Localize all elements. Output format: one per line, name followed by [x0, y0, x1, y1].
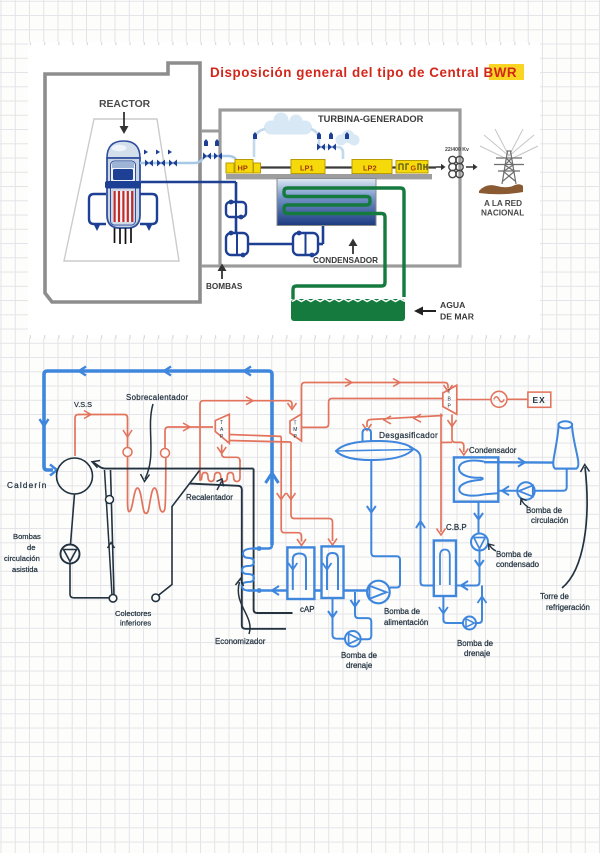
- arrow under REACTOR: [120, 112, 129, 134]
- condenser internal coil: [459, 460, 498, 495]
- wire: extraction to CAP right heater: [287, 442, 338, 545]
- cloud pipes: [254, 129, 343, 159]
- grid ticks showing at picture edges: [30, 44, 540, 337]
- label bombas de circulacion asistida: [4, 532, 41, 574]
- svg-text:condensado: condensado: [496, 560, 540, 569]
- svg-text:NACIONAL: NACIONAL: [481, 209, 524, 218]
- pump deck collar: [105, 181, 141, 189]
- inner vessel liner: [111, 161, 136, 225]
- valve circle on superheater left lead: [123, 448, 132, 457]
- furnace hopper right slope: [159, 471, 200, 596]
- alternator shaft line: [457, 399, 491, 401]
- turbine TMP: [290, 414, 302, 441]
- containment trapezoid: [64, 119, 179, 261]
- sea water serpentine: [284, 188, 404, 299]
- svg-text:A: A: [220, 427, 224, 433]
- wire circulation pump to condenser: [498, 486, 517, 495]
- circulation pump (bomba de circulacion): [517, 482, 534, 499]
- CBP heater box: [434, 541, 456, 597]
- CAP right heater box: [322, 546, 344, 598]
- wire: TBP exhaust to condenser: [448, 415, 469, 456]
- generator blocks: [396, 161, 428, 174]
- label recalentador: [186, 493, 233, 502]
- svg-text:Torre de: Torre de: [540, 592, 570, 601]
- platform: [226, 174, 432, 179]
- sea water basin: [291, 299, 405, 321]
- svg-text:HP: HP: [238, 164, 248, 173]
- label 22/400 Kv: [445, 147, 469, 153]
- cloud large: [264, 113, 312, 135]
- feed line economizer to CAP heaters: [248, 586, 288, 595]
- svg-text:cAP: cAP: [300, 605, 314, 614]
- svg-text:Calderín: Calderín: [7, 481, 48, 490]
- label colectores inferiores: [115, 609, 151, 628]
- svg-text:alimentación: alimentación: [384, 618, 428, 627]
- annotation arrow to superheater: [141, 404, 154, 482]
- recirculation loop left: [89, 194, 106, 231]
- V.S.S steam line (red): [75, 411, 132, 457]
- svg-text:Bomba de: Bomba de: [341, 651, 378, 660]
- svg-text:Recalentador: Recalentador: [186, 493, 233, 502]
- CAP right drain to drain pump: [328, 598, 345, 639]
- arrow out of transformer: [466, 164, 478, 170]
- wire tower to circulation pump: [535, 469, 567, 491]
- control rods: [115, 228, 132, 244]
- wire CAP right box to feed pump: [344, 589, 368, 592]
- wire: feedwater riser to drum (blue main): [40, 367, 279, 546]
- wire: extraction to CAP left heater: [277, 436, 306, 545]
- furnace outer right wall / duct: [254, 469, 293, 613]
- label CONDENSADOR: [313, 256, 378, 265]
- label torre de refrigeracion: [540, 592, 590, 612]
- circulation pump (black): [61, 545, 80, 564]
- shaft: [237, 166, 436, 168]
- label bomba de condensado: [496, 550, 540, 569]
- svg-text:Condensador: Condensador: [469, 446, 517, 455]
- CAP left heater box: [287, 547, 314, 599]
- svg-text:Desgasificador: Desgasificador: [379, 430, 438, 440]
- svg-text:circulación: circulación: [531, 516, 568, 525]
- svg-text:V.S.S: V.S.S: [74, 400, 92, 409]
- black furnace: top header: [92, 461, 254, 469]
- svg-text:Bomba de: Bomba de: [496, 550, 533, 559]
- pylon tower: [494, 151, 524, 184]
- label TURBINA-GENERADOR: [318, 114, 424, 124]
- svg-text:TURBINA-GENERADOR: TURBINA-GENERADOR: [318, 114, 424, 124]
- label desgasificador: [379, 430, 438, 440]
- label bomba de drenaje right: [457, 639, 494, 658]
- arrow condensador: [349, 239, 358, 255]
- svg-text:Sobrecalentador: Sobrecalentador: [126, 393, 188, 402]
- svg-text:drenaje: drenaje: [346, 661, 373, 670]
- feed pump (bomba de alimentacion): [367, 581, 390, 604]
- annotation arrow condensado: [489, 544, 497, 551]
- reactor vessel dome: [107, 141, 140, 158]
- wire: TAP exhaust to reheater: [217, 445, 240, 463]
- label sobrecalentador: [126, 393, 188, 402]
- svg-text:LP1: LP1: [300, 164, 314, 173]
- svg-text:CONDENSADOR: CONDENSADOR: [313, 256, 378, 265]
- label AGUA DE MAR: [440, 300, 475, 322]
- pump P3: [293, 231, 318, 258]
- turbine TBP: [443, 385, 457, 414]
- drain pump right discharge: [476, 586, 487, 624]
- condensate pump (bomba de condensado): [471, 534, 488, 551]
- wire condenser to cooling tower: [484, 458, 553, 467]
- wire: TMP exhaust crossover to TBP: [302, 399, 443, 428]
- transformer: [449, 156, 463, 177]
- superheater coil (sobrecalentador): [128, 457, 166, 514]
- alternator circle: [491, 391, 507, 407]
- svg-text:A LA RED: A LA RED: [484, 199, 522, 208]
- condensate main riser to deaerator: [410, 447, 434, 586]
- reactor building outline: [45, 63, 200, 302]
- steam dots row near reactor: [144, 139, 219, 155]
- cloud small: [336, 130, 360, 146]
- arrow to basin: [414, 307, 436, 316]
- risers from lower header: [105, 470, 115, 596]
- annotation arrow to reheater: [217, 479, 224, 490]
- cooling tower: [553, 421, 578, 468]
- svg-text:M: M: [293, 427, 297, 433]
- svg-text:EX: EX: [533, 395, 546, 405]
- pylon rays: [480, 129, 538, 160]
- core region: [112, 190, 134, 223]
- label A LA RED NACIONAL: [481, 199, 524, 218]
- floor line: [201, 265, 222, 268]
- wire alternator to EX: [507, 398, 528, 400]
- svg-text:22/400 Kv: 22/400 Kv: [445, 147, 469, 153]
- svg-text:inferiores: inferiores: [120, 619, 151, 628]
- wire condenser to condensate pump: [474, 502, 483, 534]
- main steam line: [140, 156, 237, 163]
- label calderin: [7, 481, 48, 490]
- arrow bombas: [218, 264, 227, 280]
- wire condensate pump to CBP: [456, 551, 484, 591]
- recirculation loop right: [140, 194, 157, 231]
- label V.S.S: [74, 400, 92, 409]
- turbine admission marks: [253, 132, 349, 151]
- title highlight BWR: [489, 64, 524, 80]
- connector between CAP boxes: [314, 589, 321, 592]
- svg-text:BOMBAS: BOMBAS: [206, 282, 243, 291]
- title text: [210, 65, 517, 80]
- label cap: [300, 605, 314, 614]
- crossover double line TAP-TMP: [229, 435, 291, 443]
- svg-text:P: P: [448, 404, 452, 410]
- deaerator tank: [336, 429, 414, 460]
- svg-text:Economizador: Economizador: [215, 637, 266, 646]
- svg-text:Bomba de: Bomba de: [526, 506, 563, 515]
- svg-text:AGUA: AGUA: [440, 300, 465, 310]
- brown ground: [479, 184, 523, 194]
- dryer dark band: [113, 169, 133, 180]
- paper background of printed figure: [28, 42, 540, 338]
- svg-text:REACTOR: REACTOR: [99, 99, 151, 110]
- svg-text:T: T: [448, 390, 451, 396]
- svg-text:DE MAR: DE MAR: [440, 312, 475, 322]
- wire: TBP extraction to CBP heater: [437, 414, 453, 536]
- pump P2: [226, 231, 248, 258]
- valve circle on superheater right lead: [161, 449, 170, 458]
- label bomba de drenaje left: [341, 651, 378, 670]
- svg-text:circulación: circulación: [4, 554, 40, 563]
- drum downcomer to circulation pump: [71, 494, 75, 544]
- condenser box: [277, 179, 376, 226]
- condenser box (hand): [454, 457, 498, 501]
- wire: TMP top bypass to TBP: [302, 379, 453, 415]
- svg-text:drenaje: drenaje: [464, 649, 491, 658]
- drain pump right (bomba de drenaje): [463, 617, 476, 630]
- turbine TAP: [215, 414, 229, 443]
- svg-text:asistida: asistida: [12, 565, 39, 574]
- label condensador: [469, 446, 517, 455]
- arrow into transformer: [436, 164, 446, 170]
- svg-text:Colectores: Colectores: [115, 609, 151, 618]
- furnace inner wall / duct: [190, 484, 286, 629]
- wire: superheater to TAP inlet: [165, 423, 213, 449]
- turbine hall box: [220, 110, 460, 266]
- label bomba de alimentacion: [384, 607, 428, 627]
- feedwater pipe to reactor: [141, 182, 323, 244]
- reheater coil (recalentador): [200, 397, 297, 482]
- svg-text:de: de: [27, 543, 35, 552]
- label economizador: [215, 637, 266, 646]
- turbine HP: [226, 160, 261, 174]
- wire: TBP extraction to deaerator: [363, 414, 443, 430]
- EX exciter box: [528, 392, 551, 407]
- economizer coil: [242, 549, 254, 591]
- svg-text:T: T: [220, 420, 223, 426]
- annotation arrow circulacion: [521, 499, 529, 508]
- turbine LP1: [291, 160, 325, 174]
- svg-text:refrigeración: refrigeración: [546, 603, 590, 612]
- label bomba de circulacion: [526, 506, 568, 525]
- svg-text:T: T: [294, 421, 297, 427]
- CBP drain to drain pump right: [439, 596, 463, 623]
- svg-text:Bombas: Bombas: [13, 532, 41, 541]
- svg-text:Bomba de: Bomba de: [457, 639, 494, 648]
- svg-text:Bomba de: Bomba de: [384, 607, 421, 616]
- lower header node 2: [152, 594, 160, 602]
- calderin (steam drum): [57, 458, 93, 494]
- label BOMBAS: [206, 282, 243, 291]
- wire deaerator to feed pump: [367, 460, 400, 588]
- label REACTOR: [99, 99, 151, 110]
- corridor roof line: [201, 130, 220, 133]
- wire pump to lower header: [70, 564, 109, 598]
- steam valves (bowties): [145, 153, 222, 167]
- reactor vessel body: [107, 158, 140, 228]
- annotation arrow to economizer: [236, 579, 251, 635]
- svg-text:B: B: [448, 397, 452, 403]
- turbine LP2: [352, 160, 392, 174]
- drain pump discharge to feed line: [351, 592, 372, 639]
- label CBP: [446, 523, 467, 532]
- junction dot economizer top: [252, 545, 272, 551]
- svg-text:C.B.P: C.B.P: [446, 523, 467, 532]
- annotation swoosh to tower: [562, 465, 590, 589]
- svg-text:Disposición general del tipo d: Disposición general del tipo de Central …: [210, 65, 517, 80]
- svg-text:G: G: [411, 164, 417, 173]
- pump P1: [226, 200, 246, 220]
- svg-text:LP2: LP2: [363, 164, 377, 173]
- lower header node 1: [109, 595, 117, 603]
- drain pump left (bomba de drenaje): [345, 631, 361, 647]
- steam separator band: [112, 162, 134, 168]
